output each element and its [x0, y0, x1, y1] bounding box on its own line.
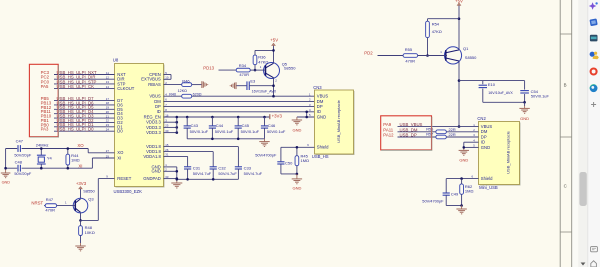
svg-text:1MΩ: 1MΩ: [71, 157, 80, 162]
svg-text:USB3300_EZK: USB3300_EZK: [114, 189, 143, 194]
svg-text:Q3: Q3: [88, 197, 94, 202]
svg-text:Mini_USB: Mini_USB: [479, 185, 498, 190]
svg-text:470R: 470R: [239, 72, 249, 77]
svg-text:U8: U8: [113, 58, 119, 63]
svg-text:620Ω: 620Ω: [193, 92, 202, 96]
svg-text:Shield: Shield: [481, 176, 493, 181]
svg-text:22R: 22R: [449, 132, 456, 137]
svg-text:50V/4.7uF: 50V/4.7uF: [218, 171, 237, 176]
svg-text:50V/0.1uF: 50V/0.1uF: [241, 129, 260, 134]
svg-text:PA5: PA5: [41, 84, 49, 89]
svg-text:PA12: PA12: [383, 132, 394, 137]
svg-text:R54: R54: [432, 21, 440, 26]
svg-text:E10: E10: [488, 82, 496, 87]
svg-text:GND: GND: [459, 157, 468, 162]
svg-text:C45: C45: [242, 123, 250, 128]
svg-text:C32: C32: [218, 165, 226, 170]
svg-text:R34: R34: [239, 63, 247, 68]
svg-text:USB_DP: USB_DP: [400, 132, 417, 137]
svg-text:PA3: PA3: [41, 127, 49, 132]
svg-text:50V/0.1uF: 50V/0.1uF: [215, 129, 234, 134]
svg-text:D0: D0: [117, 129, 123, 134]
svg-text:16V/10uF_AVX: 16V/10uF_AVX: [252, 90, 277, 94]
svg-text:Shield: Shield: [317, 145, 329, 150]
svg-text:GND: GND: [2, 180, 11, 184]
svg-text:13: 13: [106, 80, 110, 84]
svg-text:USB_HS_ULPI_D0: USB_HS_ULPI_D0: [57, 127, 95, 132]
svg-text:USB_MiniAB receptacle: USB_MiniAB receptacle: [505, 130, 510, 173]
svg-text:EXTVBUS: EXTVBUS: [141, 77, 161, 82]
svg-text:C50: C50: [285, 160, 293, 165]
svg-text:VDDA1.8: VDDA1.8: [143, 154, 161, 159]
svg-text:GND: GND: [292, 186, 301, 191]
svg-text:USB_HS_ULPI_CK: USB_HS_ULPI_CK: [57, 84, 95, 89]
svg-text:C43: C43: [191, 123, 199, 128]
svg-text:PD13: PD13: [203, 65, 214, 70]
svg-text:50V/4700pF: 50V/4700pF: [422, 199, 444, 204]
svg-text:C: C: [564, 184, 567, 189]
svg-text:C48: C48: [15, 159, 23, 164]
svg-text:NRST: NRST: [31, 200, 43, 205]
svg-text:47KΩ: 47KΩ: [432, 29, 442, 34]
svg-text:C33: C33: [244, 165, 252, 170]
svg-text:50V/4700pF: 50V/4700pF: [255, 153, 277, 158]
svg-text:C49: C49: [451, 192, 459, 197]
svg-text:47KΩ: 47KΩ: [258, 59, 268, 64]
svg-text:S8550: S8550: [284, 65, 296, 70]
svg-text:VDD3.3: VDD3.3: [146, 130, 161, 135]
svg-text:50V/20pF: 50V/20pF: [14, 153, 31, 158]
svg-text:+5V: +5V: [270, 38, 278, 43]
svg-text:16V/10uF_AVX: 16V/10uF_AVX: [488, 91, 513, 95]
svg-text:+3V3: +3V3: [76, 181, 87, 186]
svg-text:B: B: [564, 83, 567, 88]
svg-text:29: 29: [106, 154, 110, 158]
svg-text:GND: GND: [292, 128, 301, 133]
svg-text:50V/4.7uF: 50V/4.7uF: [244, 171, 263, 176]
svg-text:50V/4.7uF: 50V/4.7uF: [193, 171, 212, 176]
svg-text:S8550: S8550: [465, 55, 477, 60]
svg-text:CN2: CN2: [477, 116, 486, 121]
svg-text:R46: R46: [182, 78, 190, 83]
svg-text:10KΩ: 10KΩ: [85, 230, 95, 235]
svg-text:24: 24: [106, 127, 110, 131]
svg-text:C46: C46: [268, 123, 276, 128]
svg-text:R47: R47: [46, 197, 54, 202]
svg-text:PD2: PD2: [364, 50, 373, 55]
svg-text:S8550: S8550: [83, 189, 95, 194]
svg-text:XI: XI: [117, 155, 121, 160]
svg-text:XI: XI: [78, 163, 82, 168]
svg-text:12: 12: [106, 75, 110, 79]
svg-text:GND: GND: [481, 145, 490, 150]
svg-text:C47: C47: [16, 139, 24, 144]
svg-text:1MΩ: 1MΩ: [301, 158, 310, 163]
svg-text:C31: C31: [193, 165, 201, 170]
svg-text:24MHz: 24MHz: [36, 143, 49, 148]
svg-text:14: 14: [106, 85, 110, 89]
svg-text:C44: C44: [216, 123, 224, 128]
svg-text:+3V3: +3V3: [272, 114, 283, 119]
svg-text:12KΩ: 12KΩ: [178, 89, 188, 93]
svg-text:11: 11: [106, 71, 109, 75]
svg-text:USB_HS: USB_HS: [312, 154, 329, 159]
svg-text:470R: 470R: [405, 58, 415, 63]
svg-text:50V/0.1uF: 50V/0.1uF: [267, 129, 286, 134]
svg-text:CLKOUT: CLKOUT: [117, 86, 134, 91]
svg-text:27: 27: [106, 149, 110, 153]
svg-text:XO: XO: [77, 143, 84, 148]
svg-text:50V/0.1uF: 50V/0.1uF: [531, 94, 550, 99]
svg-text:50V/0.1uF: 50V/0.1uF: [190, 129, 209, 134]
svg-text:Q1: Q1: [463, 46, 469, 51]
svg-text:GNDPAD: GNDPAD: [143, 176, 161, 181]
svg-text:CN3: CN3: [313, 85, 322, 90]
svg-text:RBIAS: RBIAS: [148, 82, 161, 87]
svg-text:E3: E3: [250, 79, 256, 84]
svg-text:GND: GND: [520, 116, 529, 121]
svg-text:1MΩ: 1MΩ: [465, 188, 474, 193]
svg-text:Y4: Y4: [47, 156, 53, 161]
svg-text:470R: 470R: [45, 208, 55, 213]
svg-text:USB_MiniAB receptacle: USB_MiniAB receptacle: [336, 99, 341, 142]
svg-text:RESET: RESET: [117, 176, 131, 181]
svg-text:GND: GND: [151, 169, 160, 174]
svg-text:GND: GND: [317, 114, 326, 119]
svg-text:R40: R40: [169, 92, 176, 96]
svg-text:R55: R55: [405, 47, 413, 52]
svg-text:50V/20pF: 50V/20pF: [14, 171, 31, 176]
